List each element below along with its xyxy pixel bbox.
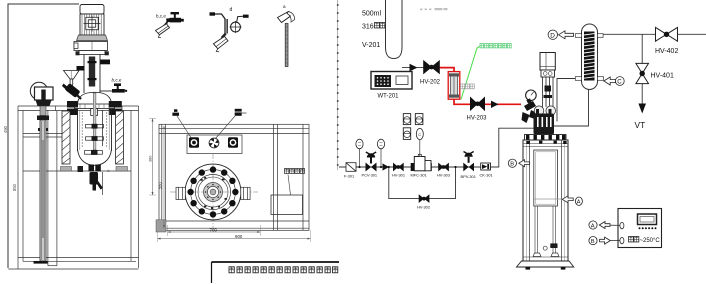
right lug [100,60,110,65]
svg-text:PCV-301: PCV-301 [362,173,378,178]
svg-text:F-301: F-301 [344,174,354,179]
reactor motor [540,53,555,71]
paddle 3 [85,150,103,155]
feed line to HV-202 [402,67,424,69]
lifting rod flange [37,116,49,121]
svg-text:~250°C: ~250°C [640,238,661,244]
svg-text:BPV-301: BPV-301 [461,174,476,179]
valve HV-401 [636,63,649,73]
branch to HV-401 [641,34,643,103]
dip tube [102,110,104,146]
trunnion left [176,187,185,199]
vessel V-201 [386,0,403,59]
funnel ball valve (black) [65,83,81,98]
coupling bracket [541,70,555,77]
center screw port [209,138,219,148]
valve HV-203 [470,97,484,110]
svg-text:380: 380 [149,156,153,162]
svg-text:560: 560 [158,182,163,189]
detail a dip rod [285,24,288,67]
furnace wall right (hatched) [116,111,124,164]
detail d lower pipe [222,34,226,38]
right side dimension [152,119,154,196]
MFC-301 [411,163,415,171]
left vertical dimension [163,126,165,228]
filter F-301 [346,163,356,172]
valve HV-303 [438,163,449,172]
motor base [77,35,108,41]
agitator motor fan cover [80,5,104,15]
svg-text:B: B [510,162,514,168]
lantern / shaft housing [83,55,85,94]
detail d dome flange [214,36,229,51]
coil [584,32,595,81]
rod end stop [34,261,48,264]
bolt circle [187,166,238,217]
red highlight box around filter [448,72,460,100]
bottom flange of vessel [89,165,95,172]
agitator motor ribbed body [80,14,104,35]
svg-text:C: C [418,132,421,137]
svg-text:HV-303: HV-303 [437,173,450,178]
head flange band [525,135,567,141]
detail d sight glass circle [231,22,241,32]
svg-text:A: A [591,223,595,229]
svg-text:V-201: V-201 [362,42,380,49]
lifting rod [40,120,46,261]
flange square right [228,137,238,148]
A signal [589,221,597,229]
leg clamp [550,243,557,248]
vessel legs [535,206,556,253]
svg-text:900: 900 [235,234,243,239]
coupling flange row [79,51,105,55]
flange bolts left [67,101,78,108]
shaft housing [543,77,554,107]
gauge PI-302 [377,139,384,149]
stand frame [8,106,138,269]
svg-text:700: 700 [210,227,218,232]
vessel bottom dish [78,150,112,166]
bypass loop [389,167,456,199]
main flange outer circle [185,164,241,220]
detail d right flange [243,15,249,18]
svg-text:490: 490 [3,125,8,133]
vessel dome [78,92,112,105]
sight ball left [534,106,544,116]
svg-text:500ml: 500ml [362,11,382,18]
gauge PI-301 [356,139,363,149]
side valve b,c,e on left view [100,90,113,92]
bottom dimension 700 [168,231,261,233]
vessel flange band [75,104,115,109]
top line to HV-402 [603,33,706,35]
outer frame [159,124,309,230]
reactor base [517,261,574,267]
furnace wall left (hatched) [62,111,70,164]
feed funnel [64,71,80,80]
agitator shaft [93,93,96,150]
svg-text:A: A [577,200,581,206]
top nozzle sub-box [187,135,242,154]
D arrow [559,31,574,39]
B arrow into furnace [508,159,516,167]
inner vessel [534,150,558,206]
small square on dome [91,109,98,116]
condensate return line [553,90,589,127]
svg-text:WT-201: WT-201 [378,94,400,100]
condenser ports [575,34,581,38]
B signal [589,237,597,245]
vessel body [77,109,79,152]
control-box label in right bay [285,169,305,174]
svg-text:a: a [283,4,286,9]
flange bolts right [109,101,122,108]
detail b,c,e nozzle pipe [163,22,168,27]
svg-text:CK-301: CK-301 [480,173,493,178]
svg-text:HV-202: HV-202 [420,80,441,86]
paddle 1 [86,124,104,129]
C arrow [604,77,616,85]
detail b,c,e valve [166,12,184,22]
main gas line [339,166,499,168]
svg-text:C: C [617,79,622,86]
valve HV-301 [393,163,404,172]
vapor line reactor->condenser [557,79,576,122]
regulator PCV-301 [366,163,377,172]
svg-text:HV-401: HV-401 [651,73,674,80]
junction dots [358,166,456,168]
junction arrow [383,163,390,170]
sight ball right [546,106,556,116]
valve HV-202 [424,61,440,74]
detail d pipe elbow [215,14,226,20]
detail d vertical pipe [225,19,228,34]
faint header text [420,8,448,10]
panel rectangle [271,195,303,215]
flange square left [189,137,199,148]
paddle 2 [86,136,104,141]
balance WT-201 [371,72,412,90]
svg-text:b,c,e: b,c,e [112,78,122,83]
instrument squares above MFC [403,114,423,140]
detail b,c,e dome flange [156,24,170,38]
inner hub [204,183,223,202]
company name glyphs [229,267,338,273]
bottom dimension 900 [158,238,311,240]
leader labels [172,109,179,115]
lifting motor bracket [35,87,54,100]
flow arrow after HV-203 [491,101,499,108]
check valve CK-301 [481,163,491,170]
head center cluster [534,114,555,135]
svg-text:b,c,e: b,c,e [156,14,166,19]
A arrow out of furnace [562,196,573,203]
svg-text:B: B [591,239,595,245]
center lines [170,191,258,193]
bottom drain valve [90,172,99,185]
inline filter [450,76,457,95]
back-pressure valve BPV-301 [463,163,474,172]
mounting plate [74,42,108,51]
pressure gauge [526,90,537,101]
svg-text:850: 850 [12,183,17,191]
green leader line [461,47,480,100]
svg-text:k: k [108,168,110,173]
svg-text:HV-203: HV-203 [467,116,488,122]
sheet border [8,4,79,268]
detail d left flange [210,12,216,15]
green annotation glyphs [480,44,511,48]
VT vent arrow [638,104,646,114]
valve HV-302 [419,194,430,203]
interior dotted thermowells [82,112,107,146]
svg-text:HV-402: HV-402 [655,48,678,55]
motor emblem [86,17,98,29]
svg-text:d: d [230,7,233,13]
lifting rod upper [40,106,46,116]
furnace base pads [61,167,72,172]
grey filter label [461,84,475,89]
corner gusset [156,220,166,232]
svg-text:HV-301: HV-301 [392,173,405,178]
line to reactor [491,128,536,167]
svg-text:316: 316 [362,24,374,31]
svg-text:D: D [550,32,555,39]
lifting column base [36,100,52,106]
svg-text:HV-302: HV-302 [417,205,430,210]
svg-text:VT: VT [635,120,646,130]
page separator ticked line [337,0,339,170]
lifting column handwheel [30,82,47,99]
svg-text:MFC-301: MFC-301 [411,173,427,178]
left lug [77,66,85,71]
small marks on ring [201,177,227,209]
furnace body [523,140,568,261]
head valve cluster black [522,98,538,123]
trunnion right [241,187,250,199]
detail a dome flange [278,12,295,23]
red feed pipeline [440,68,522,105]
valve HV-402 [656,27,667,41]
